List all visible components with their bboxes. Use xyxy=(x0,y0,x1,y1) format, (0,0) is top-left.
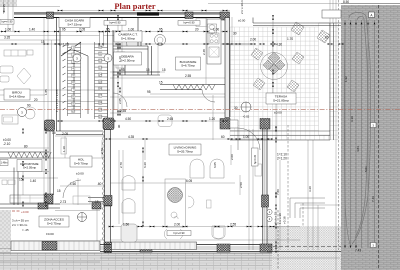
top wall solid segment xyxy=(137,12,159,15)
door zona acces xyxy=(63,180,81,198)
stair marker xyxy=(73,54,81,62)
svg-text:30: 30 xyxy=(234,106,238,110)
tv unit xyxy=(255,164,262,176)
ground stipple top-left corner xyxy=(0,0,17,7)
room label BUCATARIE xyxy=(176,57,201,70)
svg-text:2.55: 2.55 xyxy=(120,109,126,113)
svg-text:7.43: 7.43 xyxy=(355,249,361,253)
door corridor xyxy=(114,93,128,107)
svg-text:1.00: 1.00 xyxy=(243,135,249,139)
chair E of table xyxy=(188,196,194,208)
svg-text:2.00: 2.00 xyxy=(230,154,234,160)
level marker terrace xyxy=(241,102,251,112)
svg-text:1.00: 1.00 xyxy=(128,27,134,31)
terrace chair 1 xyxy=(251,48,263,60)
dining table xyxy=(165,179,186,227)
svg-text:5.01: 5.01 xyxy=(364,166,368,172)
stair arrow xyxy=(74,50,88,114)
svg-text:1.85: 1.85 xyxy=(44,89,48,95)
living seat SW xyxy=(121,224,137,242)
svg-text:3.20: 3.20 xyxy=(308,186,312,192)
pier entry SW xyxy=(44,194,53,204)
room label BIROU xyxy=(4,89,30,100)
hol cabinet xyxy=(61,138,67,154)
svg-text:2.05: 2.05 xyxy=(79,27,85,31)
birou rug xyxy=(17,68,31,84)
svg-text:80: 80 xyxy=(24,145,28,149)
terrace east edge xyxy=(330,23,334,140)
svg-text:2.48: 2.48 xyxy=(202,49,206,55)
hol west wall xyxy=(50,131,54,195)
red section line full width xyxy=(0,109,400,111)
kitchen-living wall xyxy=(160,85,229,90)
svg-text:4.50: 4.50 xyxy=(125,117,131,121)
svg-text:.60: .60 xyxy=(97,182,102,186)
exterior top wall xyxy=(14,13,229,18)
svg-text:1.50: 1.50 xyxy=(123,223,129,227)
svg-text:S=14.65mp: S=14.65mp xyxy=(9,94,25,98)
chair SE of living xyxy=(212,226,225,239)
pier kitchen SE xyxy=(220,119,230,130)
entry bench cabinet xyxy=(10,195,44,203)
svg-text:hp=+0.90: hp=+0.90 xyxy=(174,231,186,235)
svg-text:15: 15 xyxy=(162,68,166,72)
stair east wall xyxy=(108,18,114,119)
walkway along living south xyxy=(112,242,197,250)
hp label n1 xyxy=(104,21,126,26)
svg-text:S=2.50mp: S=2.50mp xyxy=(120,58,134,62)
pier living S1 xyxy=(140,244,152,252)
living seat W1 xyxy=(122,176,135,190)
room label LIVING DINING xyxy=(169,144,201,155)
pier top-right kitchen corner xyxy=(220,12,230,20)
svg-text:2.73: 2.73 xyxy=(60,200,66,204)
svg-text:2.50: 2.50 xyxy=(239,182,243,188)
staircase treads right flight xyxy=(95,44,108,117)
svg-text:15: 15 xyxy=(159,81,163,85)
stair stringers xyxy=(68,42,95,119)
svg-text:3.39: 3.39 xyxy=(350,116,354,122)
svg-text:2.55: 2.55 xyxy=(185,74,191,78)
svg-text:±0.00: ±0.00 xyxy=(274,111,282,115)
hol north wall xyxy=(56,131,103,135)
svg-text:1.10: 1.10 xyxy=(118,56,122,62)
camera ct south wall xyxy=(113,46,148,49)
terrace chair 4 xyxy=(287,80,299,92)
living east wall xyxy=(263,129,267,252)
window label east xyxy=(252,148,259,166)
svg-text:±0.00: ±0.00 xyxy=(238,19,246,23)
driveway curve left xyxy=(344,30,350,244)
pier living NE xyxy=(260,119,270,130)
svg-text:= -25: = -25 xyxy=(22,228,29,232)
terrace south steps xyxy=(230,131,330,140)
terrace paving grid xyxy=(230,27,338,140)
ground edge line xyxy=(267,245,341,247)
stair step numbers left xyxy=(72,46,76,113)
stair step numbers right xyxy=(99,45,103,119)
kitchen counter west edge xyxy=(157,46,159,75)
bush 1 xyxy=(291,22,304,35)
birou south wall xyxy=(0,152,49,158)
room label DEPOZITARE xyxy=(17,160,42,172)
svg-text:7.43: 7.43 xyxy=(371,196,375,202)
svg-text:90: 90 xyxy=(117,124,121,128)
birou sofa xyxy=(0,66,13,73)
svg-text:2 tr x 30 cm: 2 tr x 30 cm xyxy=(240,0,244,14)
pier top-mid xyxy=(185,12,193,19)
hp label n2 xyxy=(178,21,200,26)
room label HOL xyxy=(70,156,92,167)
pier zona acces east xyxy=(92,203,101,210)
zona acces north wall xyxy=(0,204,60,208)
paving pier block xyxy=(42,242,57,251)
note circles 1 2 xyxy=(267,209,272,214)
svg-text:2.65: 2.65 xyxy=(167,117,173,121)
room label CAMERA CT xyxy=(114,31,142,42)
svg-text:4 ch x 15: 4 ch x 15 xyxy=(274,211,278,224)
red level dash xyxy=(12,210,20,212)
svg-text:S=3.75mp: S=3.75mp xyxy=(47,221,61,225)
ground stipple strip left edge xyxy=(0,210,11,253)
svg-text:6.05: 6.05 xyxy=(213,162,217,168)
svg-text:8.50: 8.50 xyxy=(343,0,349,4)
pier living SE corner xyxy=(260,244,272,252)
svg-text:1.10: 1.10 xyxy=(62,146,66,152)
zona acces notes xyxy=(12,219,29,233)
door camera ct xyxy=(116,35,127,46)
terrace chair 2 xyxy=(292,52,304,64)
svg-text:60: 60 xyxy=(221,135,225,139)
dashed line terrace east xyxy=(338,0,340,250)
svg-text:6.20: 6.20 xyxy=(143,162,147,168)
svg-text:30: 30 xyxy=(233,32,237,36)
svg-text:±0.00: ±0.00 xyxy=(76,172,84,176)
svg-text:+0.00: +0.00 xyxy=(21,210,29,214)
svg-text:2.79: 2.79 xyxy=(100,148,104,154)
terrace chair 3 xyxy=(253,78,265,90)
dashed line through ground xyxy=(277,210,279,270)
debara west wall xyxy=(124,52,126,75)
svg-text:S=2.05mp: S=2.05mp xyxy=(23,165,37,169)
door kitchen xyxy=(202,90,215,103)
dimension texts rotated xyxy=(2,0,375,224)
svg-text:hp=+0.90: hp=+0.90 xyxy=(184,21,196,25)
svg-text:1.00: 1.00 xyxy=(213,27,219,31)
bush 2 xyxy=(317,30,330,43)
svg-text:hp=+0.90: hp=+0.90 xyxy=(110,21,122,25)
hp label w xyxy=(0,20,14,25)
svg-text:4.35: 4.35 xyxy=(128,135,134,139)
debara marker xyxy=(104,54,112,62)
svg-text:2.70: 2.70 xyxy=(119,162,123,168)
birou desk xyxy=(2,115,18,124)
door living-terrace xyxy=(238,128,260,150)
stair cut line xyxy=(61,42,81,56)
svg-text:3.35: 3.35 xyxy=(2,4,6,10)
svg-text:3 ch = 55 cm: 3 ch = 55 cm xyxy=(12,219,29,223)
room label wc xyxy=(0,160,8,166)
svg-text:20: 20 xyxy=(195,27,199,31)
svg-text:95: 95 xyxy=(106,27,110,31)
ground hatched block bottom-right xyxy=(267,226,341,270)
svg-text:hp=0.30: hp=0.30 xyxy=(254,154,257,164)
marker left xyxy=(18,108,27,117)
armchair N1 xyxy=(190,159,204,178)
svg-text:15: 15 xyxy=(95,200,99,204)
armchair N2 xyxy=(210,159,224,178)
svg-text:2=1.20: 2=1.20 xyxy=(277,157,287,161)
svg-text:-0.02: -0.02 xyxy=(243,115,250,119)
west wall insulation zigzag xyxy=(102,131,105,241)
kitchen east wall xyxy=(225,18,230,118)
svg-text:15: 15 xyxy=(57,189,61,193)
staircase treads left flight xyxy=(68,44,81,113)
birou bookshelf xyxy=(4,50,26,56)
svg-text:90: 90 xyxy=(27,103,31,107)
dimension lines over hatched ground xyxy=(341,4,400,249)
svg-text:95: 95 xyxy=(121,68,125,72)
debara south wall xyxy=(113,72,160,75)
svg-text:+0.38: +0.38 xyxy=(283,216,287,224)
sink xyxy=(208,24,217,33)
room label CASA SCARII xyxy=(59,18,90,28)
stairwell west wall xyxy=(57,18,61,132)
terrace plant center xyxy=(263,52,285,74)
ground paving strip bottom xyxy=(0,253,272,270)
svg-text:2.55: 2.55 xyxy=(230,223,236,227)
small cabinet xyxy=(207,200,212,208)
camera ct east wall xyxy=(138,18,141,47)
entry west wall xyxy=(14,168,18,206)
pier living W mid xyxy=(104,196,112,206)
terrace north edge xyxy=(230,18,341,118)
svg-text:2.05: 2.05 xyxy=(62,132,68,136)
dim arrows chains xyxy=(1,31,3,33)
stair tick marks left chain xyxy=(63,45,66,110)
boiler camera ct xyxy=(155,35,166,46)
svg-text:95: 95 xyxy=(62,27,66,31)
pier living E mid xyxy=(262,195,269,207)
svg-text:1.48m: 1.48m xyxy=(1,161,8,164)
table centerpiece plant xyxy=(168,188,183,203)
svg-text:1.40: 1.40 xyxy=(29,27,35,31)
svg-text:S=35.70mp: S=35.70mp xyxy=(177,149,193,153)
svg-text:7.80: 7.80 xyxy=(276,189,280,195)
svg-text:2.00: 2.00 xyxy=(250,38,256,42)
svg-text:-2.10: -2.10 xyxy=(3,142,10,146)
opening symbol corridor xyxy=(158,115,172,127)
pier living S2 xyxy=(217,244,230,252)
small box marker right strip low xyxy=(371,243,377,248)
birou chair xyxy=(25,109,35,119)
column hol NW xyxy=(45,120,55,131)
fridge xyxy=(209,47,219,57)
svg-text:hp=+0.90: hp=+0.90 xyxy=(2,20,14,24)
svg-text:1.00: 1.00 xyxy=(5,27,11,31)
terrace door step xyxy=(230,120,238,128)
paving strip top edge xyxy=(0,252,272,254)
pier zona acces xyxy=(38,203,48,209)
living south wall xyxy=(100,245,272,252)
svg-text:20: 20 xyxy=(34,98,38,102)
svg-text:±0.00: ±0.00 xyxy=(46,232,54,236)
debara east wall xyxy=(148,46,152,75)
svg-text:S=6.75mp: S=6.75mp xyxy=(181,63,195,67)
living seat W2 xyxy=(122,199,135,213)
chairs S xyxy=(164,229,182,239)
pier hol SE xyxy=(104,196,112,206)
hp label s xyxy=(167,231,191,236)
terrace table xyxy=(261,53,288,80)
svg-text:S=21.85mp: S=21.85mp xyxy=(273,98,289,102)
driveway curve inner xyxy=(355,16,368,238)
room label ZONA ACCES xyxy=(39,216,69,227)
svg-text:1.70: 1.70 xyxy=(287,37,293,41)
svg-text:a=1.05: a=1.05 xyxy=(59,43,69,47)
hol south stub wall xyxy=(88,198,107,202)
small box marker right strip xyxy=(371,123,377,128)
svg-text:1.20: 1.20 xyxy=(209,117,215,121)
room label DEBARA xyxy=(114,52,142,65)
svg-text:15: 15 xyxy=(52,131,56,135)
svg-text:17 tr x 17,5 = 2,975: 17 tr x 17,5 = 2,975 xyxy=(55,89,59,112)
svg-text:15: 15 xyxy=(146,68,150,72)
grid bubble A xyxy=(369,12,375,18)
dashed property line xyxy=(378,5,380,270)
level marker zona acces xyxy=(78,213,87,222)
svg-text:2.00: 2.00 xyxy=(174,223,180,227)
svg-text:3.35: 3.35 xyxy=(4,36,10,40)
table decor xyxy=(171,212,178,219)
room label TERASA xyxy=(266,93,296,104)
south walkway slab left xyxy=(11,241,100,251)
pier living SW xyxy=(104,242,112,253)
svg-text:Plan parter: Plan parter xyxy=(114,2,155,11)
svg-text:S=1.90mp: S=1.90mp xyxy=(121,36,135,40)
pier top-left xyxy=(47,12,54,19)
dashed line east of living xyxy=(287,125,289,250)
window label stair wall xyxy=(100,32,104,46)
shoe bench xyxy=(73,196,90,204)
kitchen cabinet top xyxy=(196,19,207,27)
svg-text:6.05: 6.05 xyxy=(186,179,192,183)
svg-text:1.60: 1.60 xyxy=(70,182,76,186)
living west wall xyxy=(105,130,111,253)
svg-text:1 tr x 30: 1 tr x 30 xyxy=(278,213,282,224)
svg-text:1.40: 1.40 xyxy=(30,179,36,183)
pergola box xyxy=(322,10,341,18)
svg-text:4.30: 4.30 xyxy=(276,43,282,47)
driveway curve outer xyxy=(349,12,371,244)
svg-text:1.92: 1.92 xyxy=(344,76,348,82)
ct equipment xyxy=(116,52,125,68)
ground hatched strip right xyxy=(341,5,400,270)
kitchen counter xyxy=(207,19,221,64)
svg-text:60: 60 xyxy=(325,36,329,40)
svg-text:15: 15 xyxy=(19,177,23,181)
stove xyxy=(209,33,219,44)
svg-text:S=7.15mp: S=7.15mp xyxy=(67,22,81,26)
svg-text:95: 95 xyxy=(147,90,151,94)
svg-text:2.05: 2.05 xyxy=(118,98,122,104)
dashed line south-east xyxy=(302,203,304,226)
SE corner steps xyxy=(290,198,325,218)
wc fixtures xyxy=(8,180,15,185)
planter strip xyxy=(319,23,330,135)
svg-text:2 tr = 30 cm: 2 tr = 30 cm xyxy=(12,223,28,227)
svg-text:S=9.70mp: S=9.70mp xyxy=(74,161,88,165)
svg-text:4.83: 4.83 xyxy=(356,146,360,152)
column stair SE xyxy=(103,118,114,130)
